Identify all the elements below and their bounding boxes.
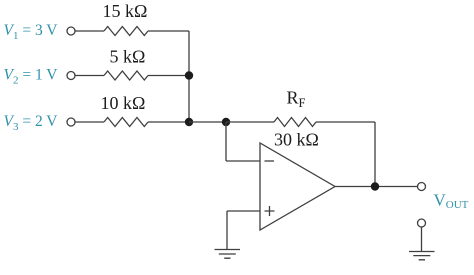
wire V2 terminal to R2 (75, 75, 104, 77)
wire reference stem (421, 227, 423, 251)
wire V3 terminal to R3 (75, 121, 104, 123)
wire V1 terminal to R1 (75, 30, 104, 32)
svg-text:V3 = 2 V: V3 = 2 V (4, 113, 59, 133)
op-amp plus pin mark (265, 206, 275, 216)
terminal VOUT (418, 183, 426, 191)
wire noninverting input (227, 210, 260, 212)
resistor R2 zigzag (104, 71, 148, 80)
wire bus to inverting node (189, 121, 226, 123)
wire summing bus vertical (188, 31, 190, 122)
junction dot inverting node (222, 118, 230, 126)
op-amp minus pin mark (265, 160, 275, 162)
terminal reference (418, 219, 426, 227)
ground symbol at op-amp (215, 250, 241, 259)
svg-text:15 kΩ: 15 kΩ (103, 1, 148, 21)
wire R2 to node (148, 75, 189, 77)
wire feedback vertical (374, 122, 376, 187)
terminal V3 (67, 118, 75, 126)
wire op-amp output (335, 186, 418, 188)
terminal V1 (67, 27, 75, 35)
wire inverting tap to op-amp (226, 160, 260, 162)
wire R3 to bus junction (148, 121, 189, 123)
resistor R1 zigzag (104, 27, 148, 36)
resistor RF zigzag (274, 118, 316, 127)
terminal V2 (67, 72, 75, 80)
resistor R3 zigzag (104, 118, 148, 127)
wire noninverting to ground (226, 211, 228, 250)
svg-text:30 kΩ: 30 kΩ (274, 130, 319, 150)
op-amp U1 triangle (260, 143, 335, 230)
junction dot bus V2 (185, 71, 193, 79)
wire RF to feedback corner (316, 121, 375, 123)
junction dot output node (371, 182, 379, 190)
svg-text:5 kΩ: 5 kΩ (110, 47, 146, 67)
svg-text:10 kΩ: 10 kΩ (101, 93, 146, 113)
junction dot bus V3 (185, 118, 193, 126)
wire R1 to bus corner (148, 30, 189, 32)
wire node to RF (226, 121, 274, 123)
ground symbol at output reference (409, 252, 435, 260)
wire inverting tap vertical (225, 122, 227, 161)
